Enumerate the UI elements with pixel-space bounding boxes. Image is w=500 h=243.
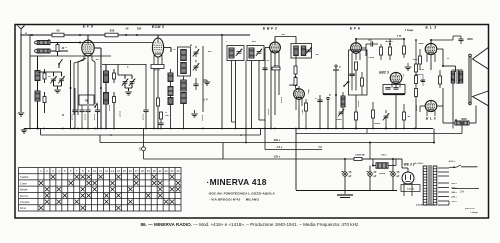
wire EF6 top bus <box>356 38 404 40</box>
svg-text:110 v: 110 v <box>451 201 457 203</box>
resistor R23b <box>415 89 418 97</box>
coil L4 aerial RF 2 <box>35 91 40 101</box>
wire col70 <box>70 60 72 129</box>
svg-text:E F 9: E F 9 <box>83 25 94 29</box>
svg-text:M: M <box>85 99 87 103</box>
wire to output transformer <box>443 65 456 67</box>
svg-text:-1,5 v: -1,5 v <box>276 145 283 149</box>
wire sec bottom <box>425 204 435 206</box>
wire F to WE33 <box>362 158 402 160</box>
band switch table <box>19 168 182 212</box>
wire mf3 drop b <box>258 61 260 121</box>
svg-text:¼ a: ¼ a <box>202 97 207 101</box>
resistor R25 10000 <box>354 158 362 161</box>
node r22 <box>415 74 417 76</box>
tube EBC3 <box>390 72 402 83</box>
svg-text:10000: 10000 <box>72 113 74 120</box>
svg-text:1=6,3V: 1=6,3V <box>407 189 415 191</box>
wire EL3 anode right <box>437 48 443 50</box>
ground CV <box>57 86 59 89</box>
wire EL3 pins <box>426 54 428 62</box>
wire WE33 top <box>407 168 409 172</box>
capacitor C3 <box>95 110 100 112</box>
coil L3 aerial RF <box>35 71 40 81</box>
resistor R1 50 <box>52 33 64 37</box>
node j4 <box>79 42 81 44</box>
resistor R14 <box>355 62 358 70</box>
svg-text:Anodo: Anodo <box>386 40 394 43</box>
coil L8b <box>168 98 173 105</box>
node anode join <box>442 65 444 67</box>
coil L5 osc <box>104 71 109 83</box>
capacitor C10 <box>385 88 390 90</box>
svg-text:F: F <box>329 93 331 97</box>
svg-text:50000: 50000 <box>336 119 342 121</box>
svg-text:Comple.: Comple. <box>20 200 30 204</box>
svg-text:1 mva: 1 mva <box>368 57 375 59</box>
bus junction dots <box>29 128 31 130</box>
wire vert296 <box>295 129 297 191</box>
table row labels <box>20 175 30 210</box>
node L4b <box>37 128 39 130</box>
capacitor C2 50000 <box>85 110 90 112</box>
svg-text:5mf: 5mf <box>140 147 142 151</box>
ground mid <box>407 63 409 66</box>
svg-text:50000: 50000 <box>268 108 270 115</box>
wire EF9 grid top <box>87 35 89 41</box>
svg-text:50000: 50000 <box>379 173 386 175</box>
node j143 <box>369 142 371 144</box>
svg-text:E F 6: E F 6 <box>350 27 361 31</box>
wire C left riser <box>99 135 101 143</box>
resistor R13 2M6 <box>305 103 308 111</box>
wire antenna feed <box>20 33 22 35</box>
earth terminal <box>20 108 22 112</box>
node r18 <box>403 38 405 40</box>
ground bar ebc3 <box>383 94 405 96</box>
capacitor C6 <box>158 123 163 125</box>
tube WE33 rectifier <box>402 172 414 184</box>
capacitor C4 <box>143 110 148 112</box>
wire L4 bottom <box>37 101 39 129</box>
wire c12 stub <box>453 35 461 37</box>
resistor R16 anodo <box>380 47 383 55</box>
trimmer MF4 <box>305 47 311 54</box>
node c15 <box>344 158 346 160</box>
pot wiper <box>338 109 344 116</box>
IF transformer MF1 box <box>178 47 191 76</box>
svg-text:1 M: 1 M <box>420 69 424 71</box>
svg-text:·MINERVA 418: ·MINERVA 418 <box>207 177 267 187</box>
wire EF6 anode <box>361 47 366 49</box>
svg-text:E L 3: E L 3 <box>426 117 436 121</box>
wire EL3 cathode <box>430 62 432 70</box>
svg-text:4 2x300 v.: 4 2x300 v. <box>416 204 426 207</box>
svg-text:7,5: 7,5 <box>318 145 322 149</box>
svg-text:+1=4,8: +1=4,8 <box>349 73 356 76</box>
svg-text:50: 50 <box>56 29 60 33</box>
field coil 8000 <box>455 121 469 125</box>
wire L5 top t <box>102 64 147 66</box>
capacitor C5 <box>193 84 198 86</box>
wire EF9 pins <box>83 56 85 61</box>
svg-text:30000: 30000 <box>418 43 424 45</box>
electrolytic C15 50uF <box>343 172 347 176</box>
svg-text:8000: 8000 <box>461 118 467 121</box>
node c17 <box>392 158 394 160</box>
svg-text:EM 4: EM 4 <box>289 83 297 87</box>
capacitor C7 <box>317 100 322 102</box>
wire EF6 pins <box>351 53 353 60</box>
node r5 <box>70 87 72 89</box>
ground symbol main <box>21 130 27 133</box>
resistor R22 <box>415 64 418 72</box>
wire 434 down <box>433 129 435 143</box>
tube EL3 <box>425 43 437 54</box>
node j434 <box>433 142 435 144</box>
wire y190 <box>296 190 397 192</box>
electrolytic C17 50uF <box>391 172 395 176</box>
wire ot down <box>452 83 454 120</box>
resistor R11 <box>294 66 297 74</box>
ground if1 <box>204 82 210 85</box>
wire EM4 drop <box>298 106 300 129</box>
pot VR2 <box>383 113 389 120</box>
wire cv3 top <box>118 74 132 76</box>
resistor R20 <box>403 112 406 120</box>
wire r17 bus <box>389 39 391 44</box>
svg-text:p.d. 6,3 v.: p.d. 6,3 v. <box>465 208 475 210</box>
svg-text:4 x 100 v: 4 x 100 v <box>415 162 425 165</box>
svg-text:4 8 5 v: 4 8 5 v <box>449 160 456 163</box>
label heater box <box>401 185 420 192</box>
ground bus main <box>24 128 433 130</box>
node antenna junction <box>31 34 33 36</box>
wire F riser at 223 <box>222 143 224 160</box>
svg-text:50000: 50000 <box>109 104 111 111</box>
resistor R26 1M <box>272 67 280 70</box>
capacitor C13 <box>421 80 425 82</box>
tube EL3 second <box>425 100 437 111</box>
node EL3t <box>430 39 432 41</box>
svg-text:E B F 2: E B F 2 <box>263 27 277 31</box>
wire EL3 grid top <box>430 40 432 44</box>
svg-text:Corte: Corte <box>20 181 27 185</box>
coil L2 coupling <box>37 49 50 53</box>
svg-text:100 v: 100 v <box>381 155 387 157</box>
coil L9 <box>181 80 187 91</box>
svg-text:WE 3 3: WE 3 3 <box>404 163 415 167</box>
wire vert 222 <box>221 35 223 129</box>
coil MF2 A <box>229 48 234 58</box>
node c16 <box>372 165 374 167</box>
resistor R21 <box>419 56 422 64</box>
power transformer primary <box>423 166 427 205</box>
node v222 <box>221 34 223 36</box>
wire EF9 cathode down <box>87 62 89 104</box>
svg-text:20 70: 20 70 <box>154 70 160 72</box>
wire EL3b grid <box>420 105 425 107</box>
svg-text:30000: 30000 <box>281 96 283 103</box>
node ot <box>451 79 453 81</box>
coil L10 <box>181 93 187 104</box>
antenna <box>18 26 25 34</box>
wire L3 top <box>37 56 39 71</box>
svg-text:1 mg: 1 mg <box>308 89 310 95</box>
schematic border frame <box>15 25 489 219</box>
switch S3 <box>94 103 97 108</box>
wire f line <box>319 95 321 129</box>
resistor R14b <box>361 78 364 86</box>
trimmer MF3a <box>256 49 262 56</box>
transformer taps <box>438 167 449 169</box>
capacitor C12 8000 <box>458 39 463 41</box>
wire MF3 drop to C <box>245 61 247 143</box>
node r18b <box>415 39 417 41</box>
capacitor C8 <box>349 74 354 76</box>
svg-text:E L 3: E L 3 <box>425 26 437 30</box>
IF transformer MF2 box <box>227 46 244 61</box>
pickup symbol <box>333 69 339 71</box>
resistor R12 <box>294 78 297 86</box>
wire 465 drop <box>461 122 463 134</box>
wire 453 down <box>452 120 454 129</box>
oscillator module box <box>79 95 94 105</box>
coil L6 osc <box>104 93 109 105</box>
IF transformer MF4 winding B <box>301 46 306 56</box>
wire EBC3 pins <box>391 83 393 88</box>
node j3 <box>136 34 138 36</box>
svg-text:∿ lamp.: ∿ lamp. <box>470 211 479 214</box>
resistor R6 <box>113 73 116 79</box>
wire mf2 drop b <box>231 61 233 123</box>
wire EM4 pins <box>295 99 297 106</box>
resistor R19 <box>372 110 375 118</box>
variable capacitor CV2 <box>58 76 64 83</box>
wire EM4 top <box>298 86 300 89</box>
wire ECH3 grid <box>157 35 159 38</box>
resistor R18 1meg <box>403 46 406 54</box>
wire ECH3 drop <box>157 69 159 129</box>
node j2 <box>125 34 127 36</box>
power transformer secondary <box>433 166 437 205</box>
svg-text:200 v: 200 v <box>274 138 281 142</box>
phono input F <box>327 100 329 129</box>
tube EBF2 <box>270 42 281 53</box>
wire EF9 pin drop b <box>78 58 86 62</box>
wire E left riser <box>264 122 266 150</box>
variable capacitor CV4 <box>129 79 135 86</box>
resistor R8 2070 <box>151 65 164 69</box>
wire r3 drop <box>57 43 59 45</box>
resistor R10 100 <box>160 112 163 119</box>
trimmer T1 <box>193 49 199 56</box>
IF transformer MF1 winding A <box>181 50 187 61</box>
volume pot VR1 <box>341 96 345 107</box>
variable capacitor CV1 <box>50 76 56 83</box>
ground c15 <box>344 191 346 195</box>
capacitor C14 5mf <box>143 129 145 147</box>
tube EF6 <box>351 43 362 53</box>
wire det link <box>259 119 265 121</box>
svg-text:Medie: Medie <box>20 188 28 192</box>
wire link l3 l5 <box>45 55 111 57</box>
resistor R3 30 <box>56 45 59 52</box>
svg-text:ECM 3: ECM 3 <box>152 25 164 29</box>
node j200 <box>355 128 357 130</box>
wire EL3b anode <box>437 105 443 107</box>
wire c15 <box>344 159 346 172</box>
resistor R2 300 <box>105 33 118 37</box>
svg-text:Mo.Inc.: Mo.Inc. <box>20 194 29 198</box>
coil L8 <box>168 87 173 96</box>
wire fc right <box>469 122 476 124</box>
trimmer T2 <box>193 63 199 70</box>
resistor R9 <box>157 98 160 106</box>
svg-text:20000: 20000 <box>358 100 360 107</box>
node cap row <box>62 114 64 116</box>
svg-text:Codice: Codice <box>20 175 29 179</box>
wire tap bottom <box>438 204 449 206</box>
bus B right ext <box>296 133 462 135</box>
bus line C 200V <box>100 142 434 144</box>
resistor R24 <box>439 76 442 84</box>
band switch S1 <box>58 59 62 65</box>
wire EF6 top <box>355 39 357 43</box>
svg-text:10000: 10000 <box>143 113 145 120</box>
svg-text:8000: 8000 <box>467 38 473 41</box>
wire EL3 top link <box>431 39 453 41</box>
wire EBF2 top <box>274 38 276 42</box>
wire mf2 drop <box>235 61 237 129</box>
wire WE33 bottom <box>403 192 405 196</box>
svg-text:10000 ΩF: 10000 ΩF <box>355 155 365 157</box>
trimmer MF2a <box>236 49 242 56</box>
variable capacitor CV3 <box>122 79 128 86</box>
svg-text:20000: 20000 <box>94 113 96 120</box>
node fc <box>461 122 463 124</box>
node vol <box>335 94 337 96</box>
wire mf4 down <box>295 56 297 67</box>
table header numbers <box>40 169 180 173</box>
svg-text:· VIA BROGGI Nº43 MILANO: · VIA BROGGI Nº43 MILANO <box>209 198 259 202</box>
node c9 <box>389 43 391 45</box>
EF6 shield box <box>349 50 368 95</box>
capacitor C9 anode <box>371 41 373 46</box>
wire fc left <box>443 122 455 124</box>
ground if2 <box>194 110 196 113</box>
svg-text:2 M6: 2 M6 <box>302 109 304 115</box>
wire b200 up1 <box>366 129 368 134</box>
capacitor C1 10000 <box>72 110 77 112</box>
wire ECH3 anode <box>164 47 171 49</box>
bus line B <box>41 134 261 136</box>
svg-text:Fono: Fono <box>20 206 27 210</box>
wire r12 to EM4 <box>296 88 300 90</box>
mains line <box>461 166 478 168</box>
resistor R15 <box>355 112 358 120</box>
resistor R4 <box>43 73 46 79</box>
wire ECH3 pins <box>153 55 155 64</box>
power transformer core <box>428 165 430 205</box>
wire if1 vertical <box>202 46 204 112</box>
switch S2 tone <box>343 82 348 87</box>
svg-text:30000: 30000 <box>120 110 122 117</box>
wire antenna down lead <box>20 35 22 108</box>
wire mf3 drop a <box>251 61 253 129</box>
svg-text:10000: 10000 <box>202 114 204 121</box>
svg-text:·SOC.AN. FONOTECNICA L.GOZZI-A: ·SOC.AN. FONOTECNICA L.GOZZI-AQUILA <box>208 192 275 196</box>
wire 160v ext <box>452 188 479 190</box>
bus line E -1.5V <box>265 149 322 151</box>
coil L7 <box>168 73 173 82</box>
IF transformer MF4 winding A <box>294 46 299 56</box>
ground CV3 <box>128 88 130 91</box>
svg-text:220 v: 220 v <box>451 183 457 185</box>
node busC dot <box>245 142 247 144</box>
svg-text:1 mega: 1 mega <box>405 29 414 32</box>
node ef6 top <box>355 38 357 40</box>
svg-text:EBC 3: EBC 3 <box>379 71 389 75</box>
tube EF9 <box>82 40 94 56</box>
bus line F 125V <box>144 158 403 160</box>
capacitor C19 <box>79 110 84 112</box>
svg-text:30000: 30000 <box>416 104 418 111</box>
speaker <box>469 48 489 106</box>
tube EM4 <box>294 89 305 99</box>
IF transformer MF3 box <box>247 46 264 61</box>
wire 370 up <box>369 143 371 160</box>
svg-text:2 A: 2 A <box>460 191 464 194</box>
wire B right riser <box>259 129 261 136</box>
svg-text:125 v: 125 v <box>274 155 281 159</box>
wire EL3b pins <box>426 111 428 116</box>
svg-text:50000: 50000 <box>85 113 87 120</box>
coil L1 antenna coupling <box>37 41 50 45</box>
capacitor C18 <box>262 68 267 70</box>
wire EBF2 anode top <box>274 37 276 43</box>
wire L5 connections <box>105 65 107 72</box>
svg-text:125 v: 125 v <box>451 197 457 199</box>
mains switch <box>453 166 455 168</box>
coil MF3 A <box>249 48 254 58</box>
node busB <box>110 134 112 136</box>
resistor R5 <box>43 97 46 103</box>
svg-text:300: 300 <box>110 29 115 33</box>
wire EF9 anode right <box>94 47 101 49</box>
EBC3 grid box <box>383 85 405 94</box>
wire EBF2 pins down <box>265 47 270 49</box>
resistor R17 <box>389 47 392 55</box>
resistor R7 <box>113 97 116 103</box>
wire EF9 screen <box>92 60 95 62</box>
svg-text:50000: 50000 <box>374 123 381 125</box>
wire EBC3 down <box>395 95 397 129</box>
resistor R23 <box>415 76 418 84</box>
wire cv top <box>54 71 62 73</box>
node j1 <box>79 34 81 36</box>
wire y42 row <box>36 42 80 44</box>
wire sw <box>58 64 60 68</box>
wire y42b <box>80 42 153 44</box>
svg-text:140 v: 140 v <box>451 191 457 194</box>
electrolytic C16 50uF <box>368 172 372 176</box>
svg-text:1 MΩ: 1 MΩ <box>274 65 279 67</box>
wire bus drop1 <box>29 35 31 129</box>
wire L4 link <box>37 81 39 92</box>
wire EF6 col down <box>355 95 357 129</box>
wire c17 <box>392 159 394 172</box>
